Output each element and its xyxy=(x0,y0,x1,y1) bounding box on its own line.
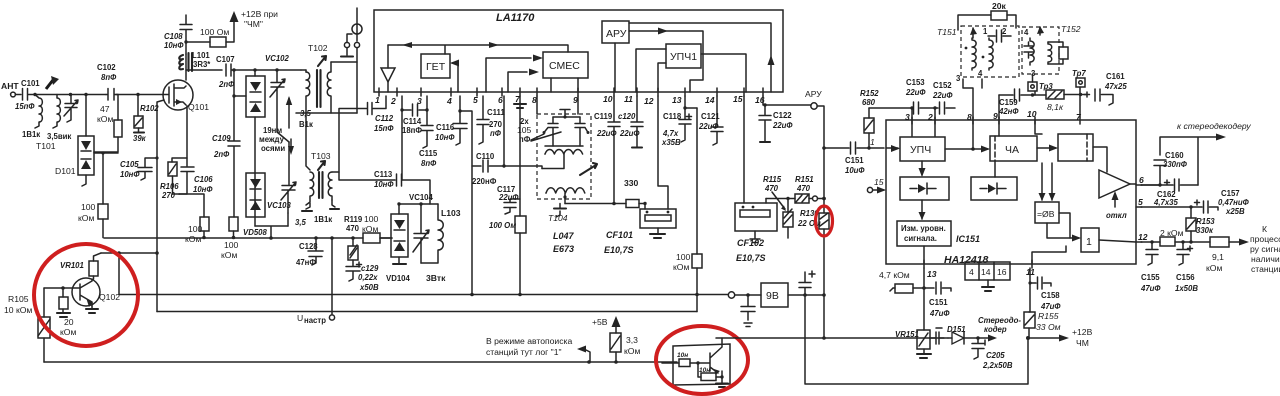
svg-text:15пФ: 15пФ xyxy=(15,102,35,111)
svg-text:10 кОм: 10 кОм xyxy=(4,305,32,315)
wire 9В rail down and bottom return xyxy=(805,295,1028,384)
svg-text:Т101: Т101 xyxy=(36,141,56,151)
svg-text:процессо: процессо xyxy=(1250,234,1280,244)
transformer T152 (dashed box) xyxy=(1022,24,1081,78)
svg-text:330пФ: 330пФ xyxy=(1163,160,1188,169)
wire internal feedback line y45 xyxy=(388,42,568,54)
svg-text:20: 20 xyxy=(64,317,74,327)
svg-text:470: 470 xyxy=(346,224,360,233)
diagram block Изм. уровн. сигнала xyxy=(897,221,951,246)
text L047 Е673 xyxy=(553,231,575,254)
svg-text:10нФ: 10нФ xyxy=(193,185,213,194)
resistor 100 кОм (varactor feed) xyxy=(362,214,392,243)
capacitor C108 10нФ xyxy=(164,15,192,54)
wire СМЕС inputs with arrows xyxy=(486,55,543,93)
capacitor C205 2,2х50В xyxy=(972,338,1013,370)
svg-text:пФ: пФ xyxy=(519,135,531,144)
op-amp U1 LA1170 IC outline xyxy=(374,10,783,92)
diagram detector 1 (-▷|-) xyxy=(900,177,949,200)
svg-text:1В1к: 1В1к xyxy=(314,215,332,224)
svg-text:9В: 9В xyxy=(766,290,779,302)
diagram block ЧА (IC151) xyxy=(990,136,1037,161)
svg-text:Е10,7S: Е10,7S xyxy=(736,253,766,263)
wire T102 to T103 xyxy=(306,113,310,170)
svg-text:15: 15 xyxy=(733,94,743,104)
svg-text:С152: С152 xyxy=(933,81,952,90)
capacitor C161 47х25 xyxy=(1085,72,1128,105)
annotation red ellipse around R130 xyxy=(816,206,833,236)
svg-text:18пФ: 18пФ xyxy=(402,126,422,135)
svg-text:CF102: CF102 xyxy=(737,238,764,248)
wire стереокодер output arrow xyxy=(976,316,1021,342)
svg-text:3,3: 3,3 xyxy=(626,335,638,345)
wire AGC line (gate 2 down to W1/W3) xyxy=(155,100,164,312)
svg-text:Т152: Т152 xyxy=(1061,24,1081,34)
svg-text:С151: С151 xyxy=(929,298,948,307)
svg-text:С105: С105 xyxy=(120,160,139,169)
svg-text:С115: С115 xyxy=(419,149,438,158)
svg-text:"ЧМ": "ЧМ" xyxy=(244,19,263,29)
capacitor variable VC103 xyxy=(267,142,296,226)
filter CF102 E10.7S xyxy=(735,199,777,264)
capacitor C118 4,7х35В (pin 13) xyxy=(661,96,697,147)
svg-text:Т102: Т102 xyxy=(308,43,328,53)
svg-text:22иФ: 22иФ xyxy=(905,88,926,97)
transformer T151 (dashed box) xyxy=(937,26,1019,83)
svg-text:D151: D151 xyxy=(947,325,966,334)
svg-text:19нм: 19нм xyxy=(263,126,282,135)
svg-text:С118: С118 xyxy=(663,112,682,121)
node antenna symbol mark xyxy=(46,76,59,89)
resistor 3,3 кОм + node +5В xyxy=(592,316,640,362)
svg-text:C205: C205 xyxy=(986,351,1005,360)
capacitor C153 22иФ xyxy=(869,78,938,136)
svg-text:С122: С122 xyxy=(773,111,792,120)
wire pin 12 network xyxy=(1141,240,1160,243)
capacitor C112 15пФ (pin 1) xyxy=(339,96,394,172)
svg-text:С107: С107 xyxy=(216,55,235,64)
svg-text:х50В: х50В xyxy=(359,283,379,292)
svg-text:УПЧ: УПЧ xyxy=(910,144,931,156)
svg-text:К: К xyxy=(1262,224,1267,234)
svg-text:3Втк: 3Втк xyxy=(426,273,446,283)
op-amp input buffer triangle (pin 1) xyxy=(381,45,395,92)
diagram block 9В regulator xyxy=(761,283,788,307)
svg-text:Изм. уровн.: Изм. уровн. xyxy=(901,224,946,233)
inductor L101 3R3 xyxy=(179,51,211,80)
svg-text:НА12418: НА12418 xyxy=(944,254,989,266)
text В режиме автопоиска станций тут лог "1" xyxy=(486,336,590,362)
pin ticks IC151 bottom/right xyxy=(924,185,1142,268)
svg-text:CF101: CF101 xyxy=(606,230,633,240)
text 19нм между осями xyxy=(259,96,294,155)
svg-text:13: 13 xyxy=(927,269,937,279)
inductor T104 core xyxy=(548,199,568,223)
svg-text:1В1к: 1В1к xyxy=(22,130,40,139)
resistor 330 (CF101 input) xyxy=(565,178,647,208)
svg-text:4: 4 xyxy=(446,96,452,106)
svg-text:к стереодекодеру: к стереодекодеру xyxy=(1177,121,1251,131)
svg-text:8: 8 xyxy=(967,112,972,122)
wire 9В output xyxy=(788,293,826,297)
svg-text:кОм: кОм xyxy=(673,262,689,272)
svg-text:Т104: Т104 xyxy=(548,213,568,223)
svg-text:12: 12 xyxy=(644,96,654,106)
svg-text:ру сигнал: ру сигнал xyxy=(1250,244,1280,254)
svg-text:47иФ: 47иФ xyxy=(929,309,950,318)
svg-text:470: 470 xyxy=(796,184,811,193)
svg-text:2,2х50В: 2,2х50В xyxy=(982,361,1013,370)
capacitor C114 18пФ (pin 2-3) xyxy=(400,96,428,180)
wire pin11 internal stub xyxy=(1032,246,1066,264)
svg-text:Е673: Е673 xyxy=(553,244,574,254)
svg-text:R155: R155 xyxy=(1038,311,1059,321)
diagram block (quadrature) xyxy=(1058,134,1093,161)
svg-text:100: 100 xyxy=(364,214,379,224)
svg-text:СМЕС: СМЕС xyxy=(549,60,580,72)
diagram block АРУ xyxy=(602,21,629,92)
capacitor C151 10иФ (АРУ coupling) xyxy=(824,137,884,175)
wire АРУ limiter loop xyxy=(629,23,775,92)
wire pin1 into УПЧ xyxy=(886,145,900,152)
svg-text:С151: С151 xyxy=(845,156,864,165)
capacitor C102 8пФ xyxy=(97,63,118,100)
svg-text:14: 14 xyxy=(705,95,715,105)
capacitor variable (mixer trim) xyxy=(580,163,597,175)
resistor 20к (top loop) xyxy=(958,1,1016,30)
diagram block УПЧ1 xyxy=(666,44,701,68)
svg-text:станций тут лог "1": станций тут лог "1" xyxy=(486,347,562,357)
svg-text:100 Ом: 100 Ом xyxy=(489,221,516,230)
capacitor C152 22иФ xyxy=(932,81,955,136)
svg-text:270: 270 xyxy=(489,120,503,129)
svg-text:=ØВ: =ØВ xyxy=(1037,209,1055,219)
svg-text:х35В: х35В xyxy=(661,138,681,147)
resistor 4,7 кОм (pin 13) xyxy=(879,268,926,293)
diagram detector 2 (-▷|-) xyxy=(971,177,1017,200)
svg-text:L103: L103 xyxy=(441,208,461,218)
resistor 2 кОм xyxy=(1160,228,1210,246)
wire АРУ output line with arrow xyxy=(629,28,703,93)
svg-text:+12В: +12В xyxy=(1072,327,1093,337)
svg-text:15пФ: 15пФ xyxy=(374,124,394,133)
resistor R130 22 Ом xyxy=(797,209,829,338)
svg-text:15: 15 xyxy=(874,177,884,187)
svg-text:С157: С157 xyxy=(1221,189,1240,198)
transistor Q102 xyxy=(72,278,120,313)
svg-text:кОм: кОм xyxy=(97,114,113,124)
diode VC102 varactor pair xyxy=(232,54,289,173)
svg-text:3: 3 xyxy=(905,112,910,122)
diode VD104 varactor pair xyxy=(380,202,438,283)
svg-text:R153: R153 xyxy=(1196,217,1215,226)
node coax connector xyxy=(331,8,362,113)
capacitor C115 8пФ (pin 3) xyxy=(419,96,438,168)
svg-text:47нФ: 47нФ xyxy=(296,258,316,267)
wire quadrature down arrows into =0В xyxy=(1039,163,1056,201)
svg-text:L101: L101 xyxy=(192,51,210,60)
transistor Q101 dual-gate MOSFET xyxy=(116,80,209,112)
capacitor C155 47иФ xyxy=(1140,242,1161,293)
svg-text:настр: настр xyxy=(304,316,326,325)
wire antenna line y94 xyxy=(35,94,106,96)
svg-text:0,22х: 0,22х xyxy=(358,273,378,282)
svg-text:680: 680 xyxy=(862,98,876,107)
svg-text:42нФ: 42нФ xyxy=(998,107,1019,116)
capacitor C117 22иФ + resistor 100 Ом (pin 7 line) xyxy=(489,103,526,296)
svg-text:IC151: IC151 xyxy=(956,234,980,244)
svg-text:ЧМ: ЧМ xyxy=(1076,338,1089,348)
svg-text:47иФ: 47иФ xyxy=(1140,284,1161,293)
wire collector line W1 xyxy=(101,251,157,255)
svg-text:VD104: VD104 xyxy=(386,274,411,283)
svg-text:кОм: кОм xyxy=(60,327,76,337)
svg-text:откл: откл xyxy=(1106,211,1127,220)
svg-text:VR101: VR101 xyxy=(60,261,84,270)
inductor T102 xyxy=(299,43,331,129)
wire Q102 base network xyxy=(44,286,80,337)
svg-text:47: 47 xyxy=(100,104,110,114)
node terminal 15 xyxy=(867,177,886,194)
svg-text:33 Ом: 33 Ом xyxy=(1036,322,1061,332)
svg-text:C101: C101 xyxy=(21,79,40,88)
capacitor C101 15пФ xyxy=(15,79,40,111)
capacitor variable VC tuning (near VC102) xyxy=(270,68,289,142)
svg-text:3,5: 3,5 xyxy=(295,218,307,227)
svg-text:2: 2 xyxy=(390,96,396,106)
svg-text:R151: R151 xyxy=(795,175,814,184)
op-amp output amplifier triangle xyxy=(1099,170,1136,198)
diagram block ГЕТ xyxy=(421,54,450,78)
svg-text:С155: С155 xyxy=(1141,273,1160,282)
inductor T103 xyxy=(295,151,332,227)
svg-text:4,7х: 4,7х xyxy=(662,129,679,138)
svg-text:С153: С153 xyxy=(906,78,925,87)
capacitor C107 2пФ xyxy=(186,55,301,89)
svg-text:20к: 20к xyxy=(992,1,1007,11)
svg-text:кодер: кодер xyxy=(984,325,1007,334)
svg-text:C160: C160 xyxy=(1165,151,1184,160)
op-amp U2 IC151 HA12418 outline xyxy=(886,120,1136,266)
diode D101 varactor pair xyxy=(55,95,94,187)
wire LA1170 pin ticks xyxy=(379,88,763,96)
svg-text:10нФ: 10нФ xyxy=(120,170,140,179)
pin ticks IC151 top xyxy=(912,117,1080,124)
resistor VR101 xyxy=(60,253,101,279)
svg-text:Тр7: Тр7 xyxy=(1072,69,1086,78)
svg-text:АРУ: АРУ xyxy=(606,28,627,40)
svg-text:В режиме автопоиска: В режиме автопоиска xyxy=(486,336,572,346)
diagram block =0В xyxy=(1035,202,1059,223)
capacitor C121 22иФ (pin 14, series) xyxy=(698,96,723,145)
wire Uнастр bus y238 xyxy=(104,237,363,239)
svg-text:4,7х35: 4,7х35 xyxy=(1153,198,1179,207)
svg-text:D101: D101 xyxy=(55,166,76,176)
svg-text:АНТ: АНТ xyxy=(1,81,19,91)
svg-text:6: 6 xyxy=(498,95,503,105)
resistor R102 39к xyxy=(133,93,159,143)
wire pin 9 stub xyxy=(577,96,579,114)
svg-text:9,1: 9,1 xyxy=(1212,252,1224,262)
capacitor C157 0,47ниФ х25В xyxy=(1189,189,1249,216)
svg-text:5: 5 xyxy=(1138,197,1143,207)
pin numbers IC151 bottom/right xyxy=(927,175,1148,279)
svg-text:47иФ: 47иФ xyxy=(1040,302,1061,311)
svg-text:С112: С112 xyxy=(375,114,394,123)
capacitor C105 10нФ xyxy=(120,158,157,180)
wire V1 + W2 (to 9В switch line) xyxy=(119,253,728,295)
diagram block 1 (mute) xyxy=(1081,228,1099,252)
capacitor C156 1х50В xyxy=(1175,242,1198,293)
svg-text:6: 6 xyxy=(1139,175,1144,185)
svg-text:13: 13 xyxy=(672,95,682,105)
annotation red circle around Q102 xyxy=(34,244,138,346)
svg-text:УПЧ1: УПЧ1 xyxy=(670,51,697,63)
svg-text:С161: С161 xyxy=(1106,72,1125,81)
node АНТ (antenna input terminal) xyxy=(1,81,21,97)
svg-text:10: 10 xyxy=(1027,109,1037,119)
svg-text:С159: С159 xyxy=(999,98,1018,107)
svg-text:330: 330 xyxy=(624,178,639,188)
svg-text:Q101: Q101 xyxy=(188,102,209,112)
svg-text:ЧА: ЧА xyxy=(1005,144,1019,156)
svg-text:22иФ: 22иФ xyxy=(772,121,793,130)
resistor 9,1 кОм xyxy=(1206,237,1249,273)
wire pin 5 network xyxy=(1141,206,1191,208)
svg-text:3R3*: 3R3* xyxy=(193,60,211,69)
svg-text:22иФ: 22иФ xyxy=(619,129,640,138)
svg-text:R105: R105 xyxy=(8,294,29,304)
pin numbers 1-16 xyxy=(375,94,765,106)
svg-text:22иФ: 22иФ xyxy=(498,193,519,202)
resistor R119 470 label xyxy=(302,200,363,233)
resistor R115 470 xyxy=(763,175,795,238)
wire pin 6 output to stereo decoder xyxy=(1141,121,1251,187)
svg-text:270: 270 xyxy=(161,191,176,200)
resistor 100 Ом xyxy=(184,22,234,47)
diode VD508 varactor pair xyxy=(243,173,268,237)
svg-text:осями: осями xyxy=(261,144,285,153)
node Тр7 core adjuster xyxy=(1072,69,1086,87)
svg-text:10нФ: 10нФ xyxy=(374,180,394,189)
svg-text:ГЕТ: ГЕТ xyxy=(426,61,446,73)
svg-text:L047: L047 xyxy=(553,231,575,241)
capacitor C110 220нФ (pin 4 to осц) xyxy=(460,111,542,186)
svg-text:между: между xyxy=(259,135,285,144)
wire =0В to block 1 xyxy=(1047,213,1136,242)
wire T151/T152 pins down to IC xyxy=(963,79,1080,117)
svg-text:с129: с129 xyxy=(361,264,379,273)
svg-text:R119: R119 xyxy=(344,215,363,224)
svg-text:47х25: 47х25 xyxy=(1104,82,1127,91)
svg-text:С108: С108 xyxy=(164,32,183,41)
svg-text:22иФ: 22иФ xyxy=(932,91,953,100)
inductor T101 input tank xyxy=(22,95,71,152)
svg-text:2: 2 xyxy=(927,112,933,122)
wire pin 15 down to CF102 xyxy=(743,96,745,203)
svg-text:100: 100 xyxy=(81,202,96,212)
svg-text:Q102: Q102 xyxy=(99,292,120,302)
svg-text:С111: С111 xyxy=(487,108,505,117)
node АРУ test point xyxy=(805,89,826,213)
resistor R151 470 xyxy=(795,175,826,203)
resistor R152 680 xyxy=(860,89,879,148)
capacitor (9В output filter, electrolytic) xyxy=(799,271,815,295)
wire feed junction + arrow +12В ЧМ xyxy=(1026,327,1093,348)
svg-text:5: 5 xyxy=(473,95,478,105)
wire ЧА to quadrature xyxy=(1035,121,1058,152)
diagram dashed box 2x105пФ mixer FETs xyxy=(517,110,591,200)
svg-text:С158: С158 xyxy=(1041,291,1060,300)
capacitor C151 47иФ (pin 13) xyxy=(924,282,951,330)
capacitor C106 10нФ xyxy=(173,158,214,194)
svg-text:105: 105 xyxy=(517,125,532,135)
svg-text:VR151: VR151 xyxy=(895,330,919,339)
wire pin 8 stub xyxy=(536,96,538,114)
svg-text:8,1к: 8,1к xyxy=(1047,102,1064,112)
resistor R106 270 xyxy=(160,106,187,200)
capacitor C159 42нФ xyxy=(998,89,1046,116)
svg-text:100 Ом: 100 Ом xyxy=(200,27,229,37)
resistor 100 кОм (AGC divider, D101 feed) xyxy=(78,151,118,237)
capacitor C111 270пФ (pin 5) xyxy=(477,96,505,144)
svg-text:кОм: кОм xyxy=(1206,263,1222,273)
svg-text:470: 470 xyxy=(764,184,779,193)
svg-text:220нФ: 220нФ xyxy=(472,177,497,186)
resistor R105 10 кОм xyxy=(4,288,50,362)
svg-text:14: 14 xyxy=(981,267,991,277)
svg-text:R152: R152 xyxy=(860,89,879,98)
svg-text:11: 11 xyxy=(624,94,633,104)
svg-text:4: 4 xyxy=(978,69,983,78)
svg-text:С128: С128 xyxy=(299,242,318,251)
svg-text:с120: с120 xyxy=(618,112,636,121)
wire W3 (АПЧ line) xyxy=(157,311,697,313)
capacitor variable VC104 xyxy=(409,193,434,263)
svg-text:10: 10 xyxy=(603,94,613,104)
wire ЧА down to detector2 xyxy=(994,161,996,177)
pin numbers IC151 top xyxy=(905,109,1082,122)
wire УПЧ1 connections xyxy=(636,49,746,92)
svg-text:4: 4 xyxy=(969,267,974,277)
svg-text:39к: 39к xyxy=(133,134,147,143)
capacitor C162 4,7х35 xyxy=(1141,179,1198,207)
svg-text:С106: С106 xyxy=(194,175,213,184)
wire УПЧ down to detector1 xyxy=(919,161,926,177)
svg-text:х25В: х25В xyxy=(1225,207,1245,216)
capacitor C116 10нФ (pin 4) xyxy=(435,96,467,145)
svg-text:22иФ: 22иФ xyxy=(698,122,719,131)
svg-text:3,5вик: 3,5вик xyxy=(47,132,71,141)
svg-text:100: 100 xyxy=(676,252,691,262)
svg-text:2пФ: 2пФ xyxy=(213,150,230,159)
node Тр3 core adjuster xyxy=(1028,74,1053,91)
svg-text:Е10,7S: Е10,7S xyxy=(604,245,634,255)
svg-text:1: 1 xyxy=(870,137,875,147)
svg-text:VС103: VС103 xyxy=(267,201,292,210)
capacitor variable (tuning) of T101 xyxy=(64,95,78,123)
svg-text:4: 4 xyxy=(1024,28,1029,37)
svg-text:С121: С121 xyxy=(701,112,720,121)
svg-text:12: 12 xyxy=(1138,232,1148,242)
svg-text:С116: С116 xyxy=(436,123,455,132)
capacitor C120 22иФ (pin 11, series) xyxy=(618,96,643,148)
svg-text:C156: C156 xyxy=(1176,273,1195,282)
svg-text:Т151: Т151 xyxy=(937,27,957,37)
wire detector1 down to Изм xyxy=(919,200,926,264)
svg-text:С119: С119 xyxy=(594,112,613,121)
svg-text:10нФ: 10нФ xyxy=(435,133,455,142)
